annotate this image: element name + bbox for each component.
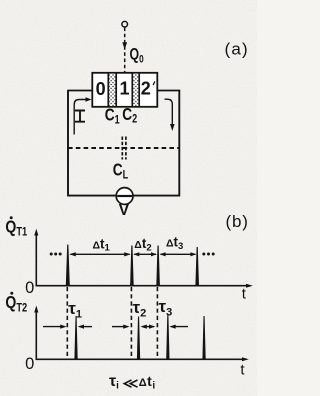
svg-text:2: 2 xyxy=(141,79,151,99)
spike T2-2 xyxy=(137,317,140,360)
label C1 xyxy=(105,106,120,127)
much-less-than symbol xyxy=(124,380,137,387)
dashed node line xyxy=(68,147,179,149)
arrow dt3 xyxy=(161,253,196,255)
terminal circle xyxy=(122,21,128,27)
label CL xyxy=(113,161,129,182)
svg-text:0: 0 xyxy=(25,279,34,297)
tick mark after 2 xyxy=(153,82,155,86)
junction barrier 2 xyxy=(133,74,139,106)
axis x1 xyxy=(36,285,250,287)
axis x2 xyxy=(36,358,246,360)
axis y1 xyxy=(35,233,37,287)
label QT1 xyxy=(5,217,27,239)
wire outer loop xyxy=(67,91,180,196)
spike T1-4 xyxy=(195,247,199,286)
dots right (top) xyxy=(202,253,205,256)
label C2 xyxy=(122,105,137,126)
spike T1-2 xyxy=(130,246,134,286)
axis y2 xyxy=(35,310,37,360)
dashed connector 2 xyxy=(130,287,132,359)
dashed connector 3 xyxy=(156,287,158,359)
wire right lead xyxy=(157,90,180,92)
spike T2-3 xyxy=(166,314,169,359)
current arrow right xyxy=(165,99,173,125)
svg-text:(b): (b) xyxy=(226,212,249,231)
tau3 arrows xyxy=(171,326,188,328)
wire left lead xyxy=(67,90,92,92)
tau2 arrows xyxy=(112,326,128,328)
box electrodes outline xyxy=(92,73,157,107)
junction barrier 1 xyxy=(109,74,116,106)
capacitor CL plates xyxy=(121,137,123,160)
svg-text:0: 0 xyxy=(96,79,106,99)
gate arrowhead xyxy=(122,42,127,49)
dashed connector 1 xyxy=(66,287,68,359)
svg-text:0: 0 xyxy=(25,355,34,373)
svg-text:(a): (a) xyxy=(225,40,249,59)
arrow dt2 xyxy=(134,253,156,255)
svg-text:1: 1 xyxy=(119,79,129,99)
label QT2 xyxy=(5,293,27,315)
tau1 arrows xyxy=(43,326,65,328)
gate dashed wire xyxy=(124,28,126,73)
voltage source V xyxy=(116,188,133,205)
spike T1-1 xyxy=(66,245,70,286)
spike T2-4 xyxy=(202,316,205,359)
spike T2-1 xyxy=(74,316,77,359)
spike T1-3 xyxy=(156,246,160,286)
label Q0 xyxy=(130,46,144,66)
current arrow left xyxy=(74,100,86,135)
svg-text:V: V xyxy=(119,202,130,219)
arrow dt1 xyxy=(71,253,130,255)
label I xyxy=(75,111,85,122)
dots left (top) xyxy=(50,253,53,256)
